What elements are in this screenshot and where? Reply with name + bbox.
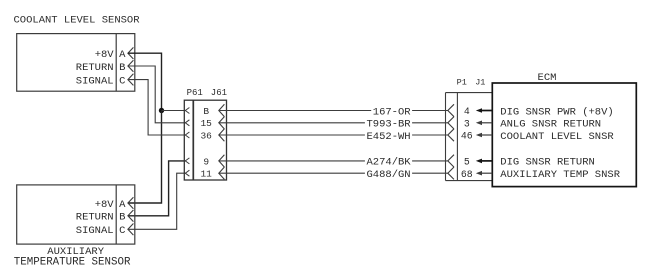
aux sensor pin C	[119, 224, 133, 238]
svg-text:+8V: +8V	[95, 199, 115, 211]
svg-text:A: A	[119, 199, 126, 211]
svg-text:46: 46	[461, 131, 473, 142]
wire: junction to P61 pin B	[162, 110, 186, 112]
wire: +8V coolant sensor pin A to junction	[128, 53, 162, 110]
svg-text:T993-BR: T993-BR	[366, 119, 411, 131]
svg-text:9: 9	[203, 156, 209, 167]
svg-text:DIG SNSR PWR (+8V): DIG SNSR PWR (+8V)	[500, 106, 613, 118]
wire E452-WH (P61 pin 36 to ECM pin 46)	[219, 134, 448, 136]
aux sensor pin A	[119, 197, 133, 211]
svg-text:AUXILIARY TEMP SNSR: AUXILIARY TEMP SNSR	[500, 169, 620, 181]
P1 pin 5	[448, 155, 493, 168]
P1 pin 4	[448, 104, 493, 117]
P1 pin 68	[448, 167, 493, 180]
svg-text:36: 36	[200, 130, 212, 141]
svg-text:C: C	[119, 75, 125, 87]
svg-text:B: B	[119, 62, 125, 74]
svg-text:15: 15	[200, 118, 212, 129]
auxiliary temperature sensor B2 box	[17, 185, 135, 244]
svg-text:RETURN: RETURN	[76, 212, 114, 224]
svg-text:SIGNAL: SIGNAL	[76, 75, 114, 87]
coolant sensor pin B	[119, 60, 133, 74]
wire G488/GN (P61 pin 11 to ECM pin 68)	[219, 172, 448, 174]
P1 pin 46	[448, 129, 493, 142]
svg-text:G488/GN: G488/GN	[366, 169, 410, 181]
wire: +8V junction down to aux temp sensor pin A	[128, 111, 162, 204]
svg-text:DIG SNSR RETURN: DIG SNSR RETURN	[500, 157, 595, 169]
connector P61/J61 box	[184, 100, 226, 180]
svg-text:3: 3	[464, 118, 470, 129]
svg-text:E452-WH: E452-WH	[366, 131, 410, 143]
P61 pin 9	[185, 155, 224, 168]
wire T993-BR (P61 pin 15 to ECM pin 3)	[219, 122, 448, 124]
ECM box	[492, 83, 636, 187]
connector P1/J1 strip	[446, 93, 493, 181]
svg-text:167-OR: 167-OR	[373, 106, 412, 118]
svg-text:COOLANT LEVEL SENSOR: COOLANT LEVEL SENSOR	[14, 15, 141, 27]
svg-text:ECM: ECM	[538, 72, 557, 84]
svg-text:ANLG SNSR RETURN: ANLG SNSR RETURN	[500, 119, 601, 131]
wire: coolant sensor SIGNAL pin C to P61 pin 36	[128, 80, 185, 135]
wire: aux temp sensor RETURN pin B to P61 pin 9	[128, 161, 185, 216]
svg-text:B: B	[119, 212, 125, 224]
wire: coolant sensor RETURN pin B to P61 pin 15	[128, 66, 185, 123]
svg-text:4: 4	[464, 106, 470, 117]
svg-text:RETURN: RETURN	[76, 62, 114, 74]
svg-text:B: B	[203, 106, 209, 117]
svg-text:5: 5	[464, 157, 470, 168]
aux sensor pin B	[119, 210, 133, 224]
svg-text:TEMPERATURE SENSOR: TEMPERATURE SENSOR	[14, 256, 131, 268]
coolant sensor pin C	[119, 74, 133, 88]
P61 pin B	[185, 104, 224, 117]
svg-text:A: A	[119, 49, 126, 61]
P1 pin 3	[448, 117, 493, 130]
wire: aux temp sensor SIGNAL pin C to P61 pin 11	[128, 173, 185, 229]
coolant level sensor B1 box	[17, 34, 135, 92]
svg-text:11: 11	[200, 169, 212, 180]
svg-text:SIGNAL: SIGNAL	[76, 225, 114, 237]
P61 pin 11	[185, 167, 224, 180]
svg-text:C: C	[119, 225, 125, 237]
svg-text:COOLANT LEVEL SNSR: COOLANT LEVEL SNSR	[500, 131, 614, 143]
wire A274/BK (P61 pin 9 to ECM pin 5)	[219, 160, 448, 162]
coolant sensor pin A	[119, 47, 133, 61]
junction node +8V branch (dot)	[159, 108, 164, 113]
svg-text:+8V: +8V	[95, 49, 115, 61]
svg-text:A274/BK: A274/BK	[366, 157, 411, 169]
wire 167-OR (P61 pin B to ECM pin 4)	[219, 110, 448, 112]
P61 pin 36	[185, 129, 224, 142]
P61 pin 15	[185, 117, 224, 130]
svg-text:68: 68	[461, 169, 473, 180]
